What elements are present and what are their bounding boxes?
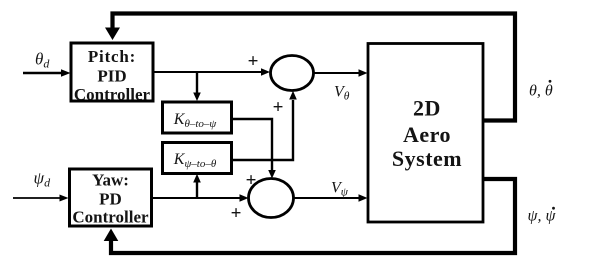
svg-text:Controller: Controller [72,208,149,227]
wire pitch controller output to S1 [154,68,270,75]
svg-text:System: System [392,146,462,171]
svg-text:Aero: Aero [403,122,451,147]
wire branch up into K_psi-to-theta [193,174,201,198]
wire K_psi-to-theta output to S1 bottom [232,91,297,160]
summing junction S1 (pitch) [271,56,314,91]
block G 2D Aero System [368,44,483,223]
svg-text:+: + [273,97,284,118]
block U2 Yaw PD Controller [70,169,152,227]
svg-text:PD: PD [99,190,122,209]
wire yaw controller output to S2 [152,194,249,201]
svg-text:ψ, ψ: ψ, ψ [528,208,557,225]
wire K_theta-to-psi output to S2 top [232,119,276,179]
block U1 Pitch PID Controller [71,43,153,104]
svg-text:PID: PID [97,67,126,86]
svg-text:Yaw:: Yaw: [92,171,129,190]
wire S1 output V_theta to plant [314,69,368,76]
svg-text:Controller: Controller [74,85,151,104]
wire branch down into K_theta-to-psi [193,72,201,101]
feedback wire psi (plant right to yaw controller bottom) [104,179,515,253]
wire theta_d input arrow [23,69,71,76]
svg-text:θ, θ: θ, θ [529,83,553,100]
svg-text:Pitch:: Pitch: [88,47,136,66]
feedback wire theta (plant right to pitch controller top) [105,14,515,121]
gain block K_psi-to-theta [163,143,232,174]
svg-text:+: + [248,51,259,72]
svg-text:+: + [246,170,257,191]
svg-text:+: + [231,203,242,224]
svg-text:2D: 2D [413,96,441,121]
wire S2 output V_psi to plant [294,194,368,201]
gain block K_theta-to-psi [163,102,232,133]
wire psi_d input arrow [13,195,69,202]
summing junction S2 (yaw) [249,179,294,218]
